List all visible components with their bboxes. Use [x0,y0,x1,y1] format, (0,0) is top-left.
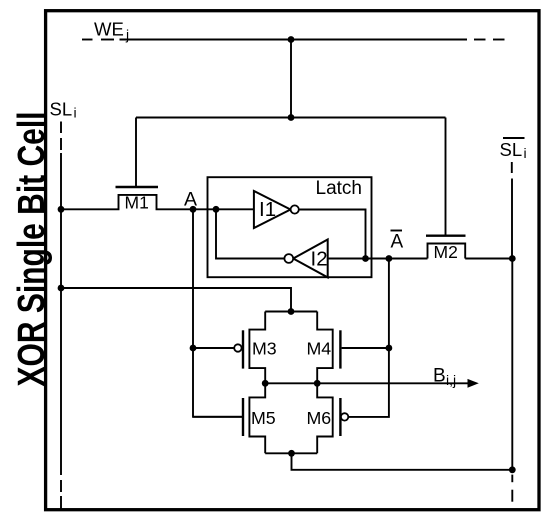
svg-text:i: i [74,105,77,121]
transistor M3 [234,312,277,384]
wire I2 input from node [328,258,366,260]
wire I2 output to A [216,209,284,258]
junction on WEj [288,36,295,43]
latch box [208,177,372,277]
svg-text:I2: I2 [311,248,328,271]
arrow Bij [468,379,479,388]
wire M5 gate lead [193,416,243,418]
svg-text:SL: SL [50,99,73,120]
junction SLi / M1 source [58,206,65,213]
wire Bij row [265,382,471,384]
junction latch feedback on A row [213,206,220,213]
pass-gate bottom bar [265,452,317,454]
wire bottom return to SLbar [292,453,513,470]
junction SLbar / M2 [509,255,516,262]
wire WEj horizontal (dashed ends) [82,39,505,41]
junction I1 out / I2 in / Abar [362,255,369,262]
svg-text:SL: SL [500,139,523,160]
svg-text:M1: M1 [125,193,149,213]
wire M3 gate lead [193,347,234,349]
node Abar [386,255,393,262]
inverter I2 [284,240,327,278]
wire SLbar vertical (dash under label) [511,162,513,259]
svg-text:i: i [524,145,527,161]
transistor M1 [61,118,254,213]
wire M2 drain to SLbar [465,258,512,260]
junction bottom right [509,466,516,473]
wire WEj drop to gate rail [290,40,292,118]
junction Abar / M4 gate [386,345,393,352]
svg-text:A: A [391,232,404,253]
junction M3 drain [262,380,269,387]
svg-text:M6: M6 [307,408,332,428]
svg-text:B: B [433,366,446,387]
svg-text:WE: WE [94,19,124,40]
junction A / M3 gate [190,345,197,352]
pass-gate top bar [265,311,317,313]
net SLi label [50,99,77,121]
wire gate rail M1-M2 [136,117,446,119]
net WEj label [94,19,129,43]
svg-text:M5: M5 [251,408,276,428]
svg-text:M2: M2 [434,242,458,262]
net SLbar_i label [500,138,527,161]
transistor M2 [426,118,466,263]
svg-text:i,j: i,j [446,372,456,388]
junction top center [288,308,295,315]
label Bij [433,366,456,389]
svg-text:M3: M3 [252,339,277,359]
node A [190,206,197,213]
wire A vertical to gates of M3 M5 [193,209,242,416]
wire SLbar vertical down right side [511,259,513,502]
wire Abar vertical to gates of M4 M6 [348,259,389,417]
inverter I1 [254,191,299,228]
svg-text:I1: I1 [259,198,276,221]
svg-text:M4: M4 [307,339,332,359]
junction bottom center [288,450,295,457]
junction M4 drain [314,380,321,387]
transistor M4 [307,312,341,384]
wire SLi to pass-gate top [61,288,291,312]
transistor M6 [307,383,349,453]
svg-text:Latch: Latch [316,178,362,199]
junction on gate rail [288,114,295,121]
transistor M5 [243,383,276,453]
svg-text:A: A [184,189,197,211]
wire Abar row [366,258,428,260]
wire SLi vertical (dashed top) [60,122,62,510]
junction SLi / pass row [58,285,65,292]
wire I1 output feedback [299,210,366,259]
svg-text:XOR Single Bit Cell: XOR Single Bit Cell [11,112,53,387]
wire M4 gate lead [342,347,389,349]
